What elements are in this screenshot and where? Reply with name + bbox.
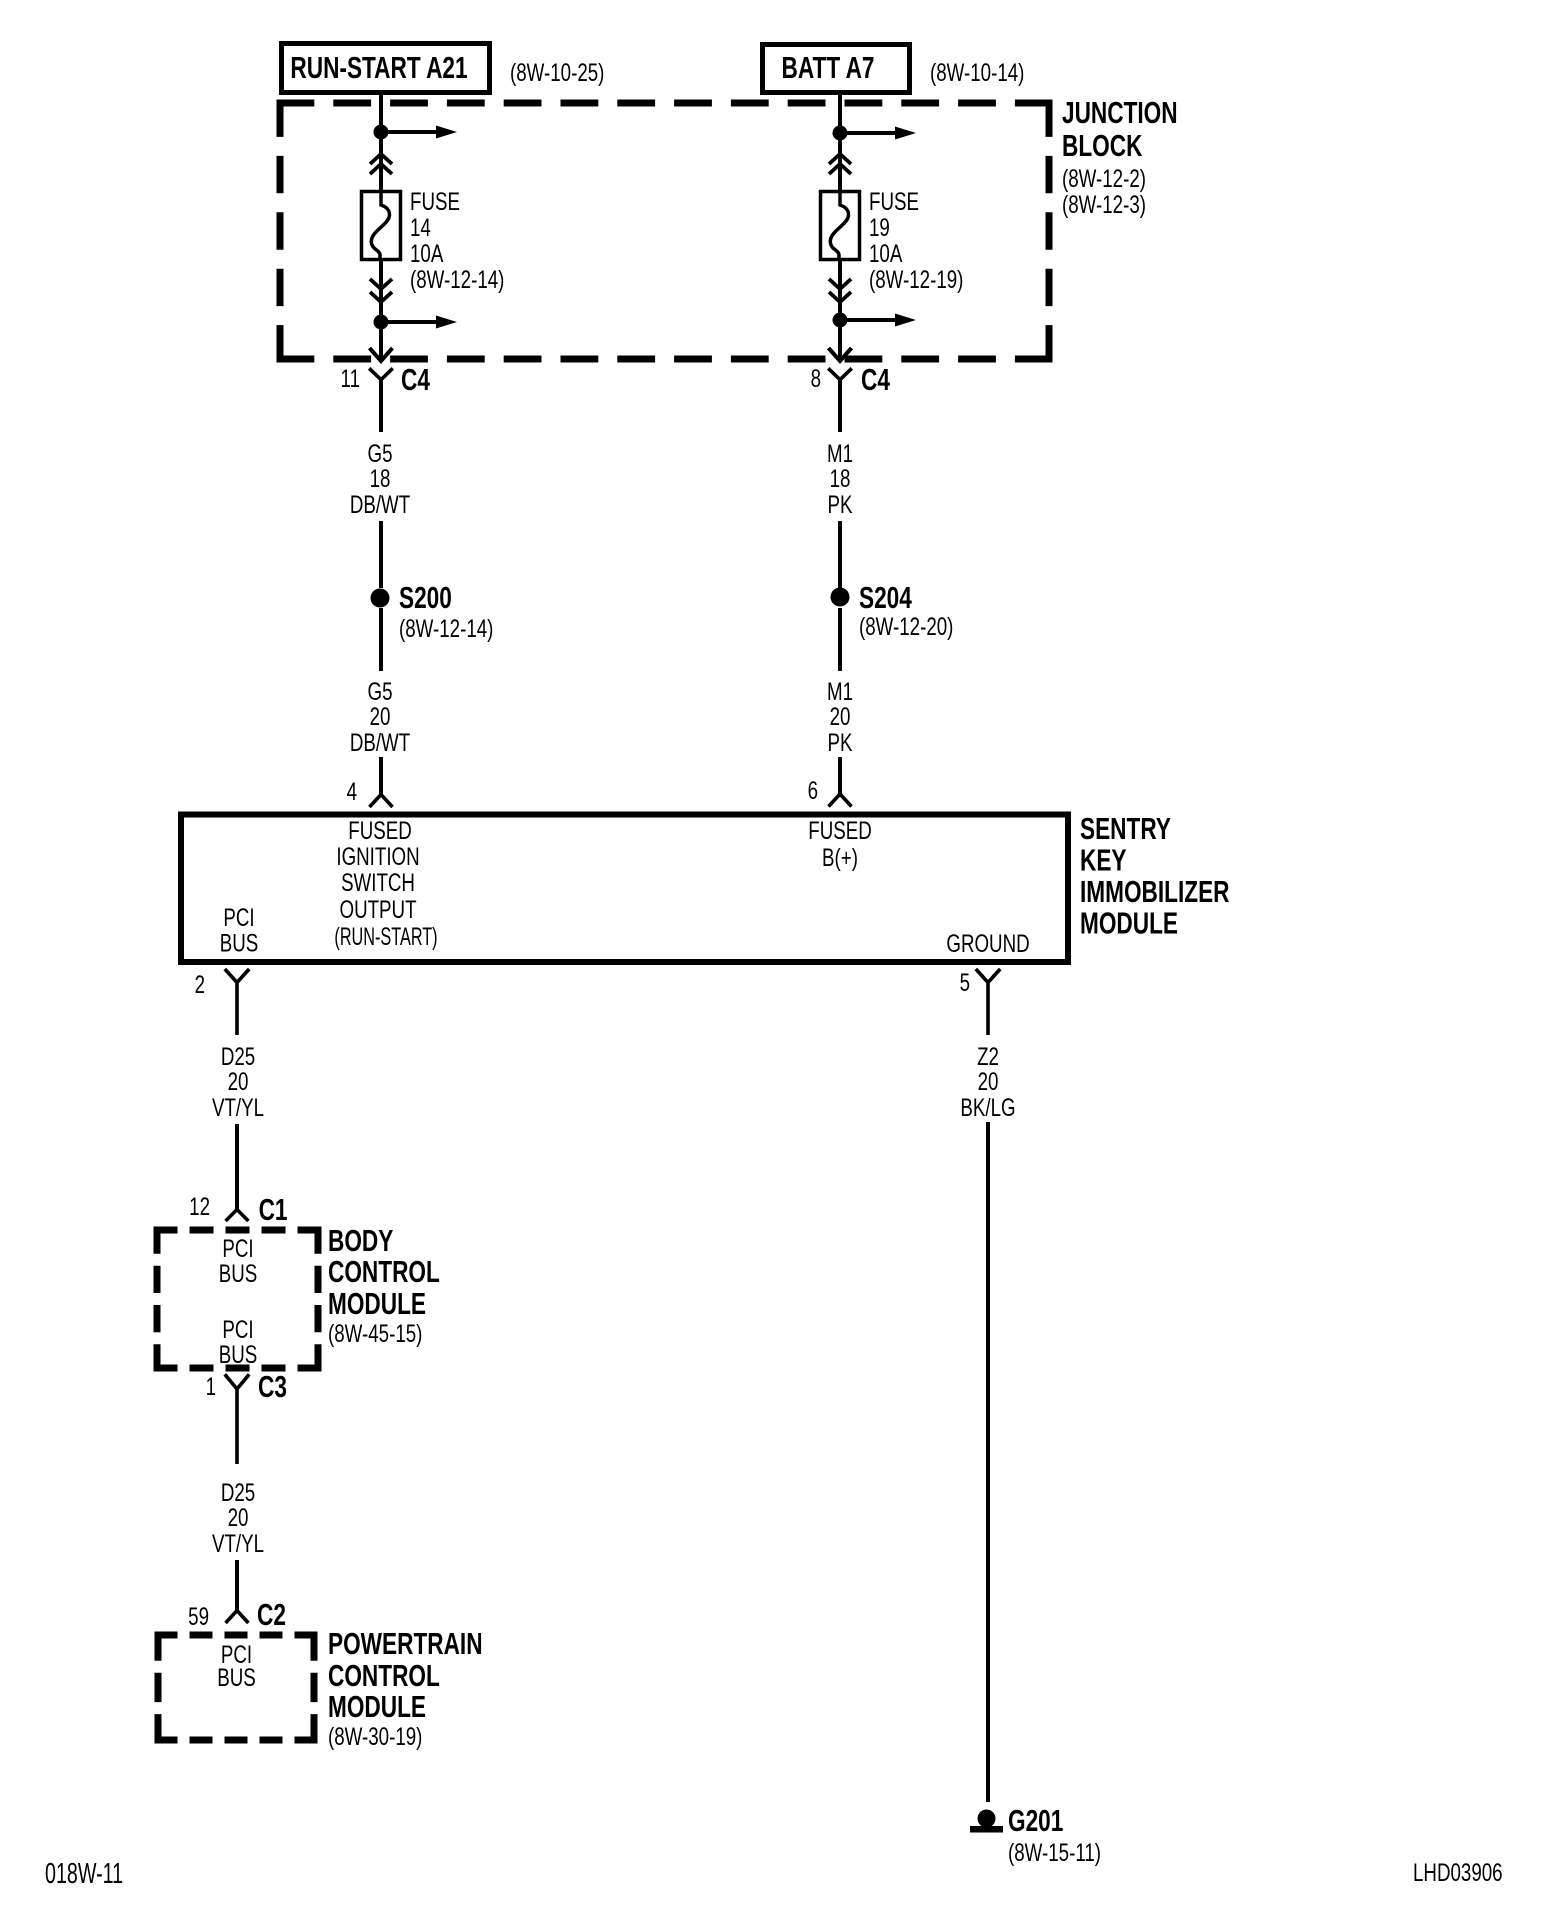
svg-text:14: 14	[410, 213, 431, 241]
connector C3 pin 1 (female Y)	[225, 1374, 249, 1464]
fuse 14 value label	[410, 187, 504, 293]
fuse 14 element	[371, 192, 389, 261]
connector pin 4 (male)	[370, 795, 393, 808]
arrowhead at junction block exit (right)	[829, 348, 852, 361]
wire label D25 20 VT/YL (upper)	[212, 1042, 264, 1121]
BCM PCI BUS label (top)	[219, 1234, 258, 1287]
svg-text:BLOCK: BLOCK	[1062, 127, 1143, 162]
wire fuse 19 output	[838, 261, 842, 358]
svg-text:GROUND: GROUND	[946, 929, 1029, 957]
node dot on RUN-START feed	[374, 125, 389, 140]
fuse 19 element	[830, 192, 848, 261]
connector pin 6 (male)	[829, 794, 852, 807]
svg-text:MODULE: MODULE	[328, 1285, 426, 1320]
body control module name label	[328, 1222, 440, 1347]
arrowhead at junction block exit (left)	[370, 348, 393, 361]
node dot below fuse 14	[374, 315, 389, 330]
junction block label	[1062, 94, 1178, 218]
svg-text:JUNCTION: JUNCTION	[1062, 94, 1178, 129]
svg-text:018W-11: 018W-11	[45, 1858, 123, 1890]
wire to PCM pin 59	[235, 1560, 239, 1611]
feed box BATT A7	[763, 45, 910, 93]
fuse 14 body	[362, 192, 401, 260]
svg-text:SWITCH: SWITCH	[341, 868, 415, 896]
svg-text:20: 20	[370, 702, 391, 730]
svg-text:20: 20	[830, 702, 851, 730]
PCM PCI BUS label	[217, 1640, 256, 1691]
ground G201 symbol	[970, 1810, 1003, 1833]
fuse 19 body	[821, 192, 860, 260]
svg-text:(8W-30-19): (8W-30-19)	[328, 1722, 422, 1750]
svg-text:19: 19	[869, 213, 890, 241]
node dot on BATT feed	[833, 126, 848, 141]
svg-text:2: 2	[195, 970, 205, 998]
svg-text:6: 6	[808, 776, 818, 804]
wire splice S200 to label G5 20	[379, 608, 383, 671]
wire to splice S204	[838, 521, 842, 588]
SKIM module box	[181, 815, 1068, 963]
svg-text:10A: 10A	[869, 239, 903, 267]
splice S200 label	[399, 579, 493, 642]
splice S204 label	[859, 579, 953, 640]
powertrain control module name label	[328, 1625, 483, 1750]
svg-text:BUS: BUS	[219, 1340, 258, 1368]
svg-text:LHD03906: LHD03906	[1413, 1858, 1503, 1886]
current direction chevrons down (right)	[829, 279, 851, 302]
SKIM pin 4 function label	[334, 816, 437, 951]
current direction chevrons up (left)	[370, 154, 392, 174]
splice S200	[371, 589, 390, 608]
wire fuse 14 output	[379, 261, 383, 358]
ground wire to G201	[986, 1122, 990, 1802]
svg-text:(RUN-START): (RUN-START)	[334, 924, 437, 951]
svg-text:8: 8	[811, 364, 821, 392]
wire RUN-START A21 feed to fuse 14	[379, 95, 383, 190]
svg-text:10A: 10A	[410, 239, 444, 267]
svg-text:(8W-10-14): (8W-10-14)	[930, 58, 1024, 86]
wire splice S204 to label M1 20	[838, 608, 842, 671]
wire C4 pin 8 to label M1 18	[838, 379, 842, 432]
splice S204	[831, 588, 850, 607]
svg-text:FUSED: FUSED	[808, 816, 871, 844]
SKIM pin 5 (female Y)	[976, 969, 1000, 1035]
wire to SKIM pin 6	[838, 757, 842, 795]
svg-text:MODULE: MODULE	[328, 1688, 426, 1723]
svg-text:FUSE: FUSE	[410, 187, 460, 215]
svg-text:FUSE: FUSE	[869, 187, 919, 215]
SKIM PCI BUS label	[220, 903, 259, 957]
svg-text:CONTROL: CONTROL	[328, 1253, 440, 1288]
svg-text:BUS: BUS	[219, 1259, 258, 1287]
svg-text:IMMOBILIZER: IMMOBILIZER	[1080, 873, 1230, 908]
wire C4 pin 11 to label G5 18	[379, 379, 383, 432]
svg-text:KEY: KEY	[1080, 842, 1127, 877]
connector C4 pin 8 (female Y)	[828, 368, 852, 379]
svg-text:S204: S204	[859, 579, 912, 614]
svg-text:S200: S200	[399, 579, 452, 614]
svg-text:11: 11	[341, 364, 360, 392]
wire label G5 18 DB/WT	[350, 439, 410, 518]
svg-text:DB/WT: DB/WT	[350, 490, 410, 518]
BCM PCI BUS label (bottom)	[219, 1315, 258, 1368]
svg-text:DB/WT: DB/WT	[350, 728, 410, 756]
arrow tap right from RUN-START feed node	[381, 126, 457, 139]
svg-text:4: 4	[347, 777, 357, 805]
powertrain control module dashed box	[155, 1632, 318, 1744]
svg-text:(8W-45-15): (8W-45-15)	[328, 1319, 422, 1347]
svg-text:C4: C4	[401, 361, 430, 396]
svg-text:BATT A7: BATT A7	[782, 49, 875, 84]
wire to splice S200	[379, 521, 383, 588]
SKIM module name	[1080, 810, 1230, 940]
svg-text:PCI: PCI	[223, 903, 254, 931]
svg-text:FUSED: FUSED	[348, 816, 411, 844]
svg-text:G201: G201	[1008, 1802, 1063, 1837]
wire to BCM pin 12	[235, 1124, 239, 1210]
svg-text:C3: C3	[258, 1368, 287, 1403]
svg-text:BUS: BUS	[220, 929, 259, 957]
svg-text:(8W-12-14): (8W-12-14)	[410, 265, 504, 293]
fuse 19 value label	[869, 187, 963, 293]
wire to SKIM pin 4	[379, 757, 383, 796]
junction block dashed box	[277, 100, 1053, 363]
connector C2 pin 59 (male)	[226, 1611, 249, 1624]
wire label M1 18 PK	[827, 439, 853, 518]
svg-text:20: 20	[978, 1067, 999, 1095]
body control module dashed box	[154, 1227, 322, 1372]
arrow tap right from BATT feed node	[840, 127, 916, 140]
svg-text:C4: C4	[861, 361, 890, 396]
svg-text:(8W-12-3): (8W-12-3)	[1062, 190, 1146, 218]
svg-text:20: 20	[228, 1067, 249, 1095]
SKIM pin 2 (female Y)	[225, 969, 249, 1035]
svg-text:C2: C2	[257, 1596, 286, 1631]
node dot below fuse 19	[833, 313, 848, 328]
current direction chevrons down (left)	[370, 279, 392, 302]
svg-text:(8W-12-2): (8W-12-2)	[1062, 164, 1146, 192]
ground G201 label	[1008, 1802, 1101, 1866]
svg-text:C1: C1	[259, 1191, 288, 1226]
current direction chevrons up (right)	[829, 154, 851, 174]
svg-text:SENTRY: SENTRY	[1080, 810, 1171, 845]
svg-text:20: 20	[228, 1503, 249, 1531]
svg-text:(8W-12-19): (8W-12-19)	[869, 265, 963, 293]
connector C1 pin 12 (male)	[226, 1210, 249, 1222]
SKIM pin 6 function label	[808, 816, 871, 871]
svg-text:(8W-12-14): (8W-12-14)	[399, 614, 493, 642]
arrow tap right from fuse 14 output node	[381, 316, 457, 329]
wire label Z2 20 BK/LG	[960, 1042, 1015, 1121]
wire BATT A7 feed to fuse 19	[838, 95, 842, 190]
feed box RUN-START A21	[282, 44, 490, 93]
svg-text:(8W-15-11): (8W-15-11)	[1008, 1838, 1101, 1866]
svg-text:IGNITION: IGNITION	[336, 842, 419, 870]
svg-text:VT/YL: VT/YL	[212, 1529, 264, 1557]
svg-text:1: 1	[206, 1372, 216, 1400]
svg-text:PK: PK	[828, 728, 853, 756]
svg-text:(8W-10-25): (8W-10-25)	[510, 58, 604, 86]
svg-text:RUN-START A21: RUN-START A21	[290, 49, 467, 84]
svg-text:POWERTRAIN: POWERTRAIN	[328, 1625, 483, 1660]
connector C4 pin 11 (female Y)	[369, 368, 393, 379]
svg-text:(8W-12-20): (8W-12-20)	[859, 612, 953, 640]
wire label G5 20 DB/WT	[350, 677, 410, 756]
svg-text:PK: PK	[828, 490, 853, 518]
svg-text:18: 18	[830, 464, 851, 492]
svg-text:18: 18	[370, 464, 391, 492]
svg-text:OUTPUT: OUTPUT	[339, 895, 416, 923]
svg-text:5: 5	[960, 968, 970, 996]
svg-text:BUS: BUS	[217, 1663, 256, 1691]
svg-text:VT/YL: VT/YL	[212, 1093, 264, 1121]
svg-text:BK/LG: BK/LG	[960, 1093, 1015, 1121]
wire label D25 20 VT/YL (lower)	[212, 1478, 264, 1557]
svg-text:B(+): B(+)	[822, 843, 858, 871]
arrow tap right from fuse 19 output node	[840, 314, 916, 327]
svg-text:12: 12	[189, 1192, 210, 1220]
svg-text:59: 59	[188, 1602, 209, 1630]
wire label M1 20 PK	[827, 677, 853, 756]
svg-text:MODULE: MODULE	[1080, 905, 1178, 940]
